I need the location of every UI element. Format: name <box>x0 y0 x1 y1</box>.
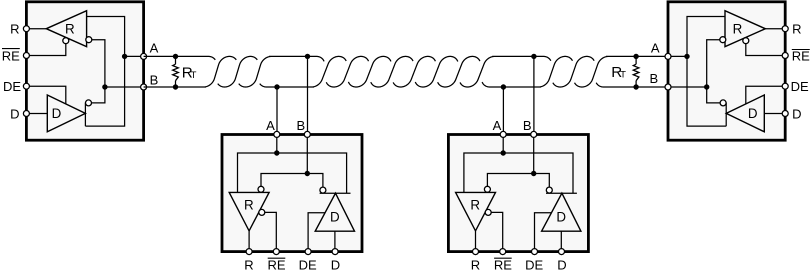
node: stub 2 tap A junction <box>501 84 506 89</box>
svg-text:A: A <box>266 118 275 133</box>
U1 pin DE <box>23 83 29 89</box>
U2 pin DE <box>305 249 311 255</box>
U2 driver inverting output bubble <box>320 187 326 193</box>
U3 wire: receiver enable to pin RE <box>491 212 502 251</box>
node: RT1 top junction on A <box>173 54 178 59</box>
node A junction inside U1 <box>122 54 127 59</box>
U4 pin R <box>782 26 788 32</box>
U1 wire: A node to pin A <box>125 55 144 57</box>
U3 pin A <box>500 131 506 137</box>
svg-text:R: R <box>792 22 801 37</box>
U1 pin A <box>141 53 147 59</box>
node B junction inside U4 <box>704 84 709 89</box>
svg-text:RE: RE <box>2 48 20 63</box>
svg-text:D: D <box>557 257 566 272</box>
U4 wire: pin B to B node <box>668 86 707 88</box>
U4 wire: RE pin to receiver enable <box>746 44 785 56</box>
U2 pin B <box>304 131 310 137</box>
U3 wire: pin B down to B node <box>533 134 535 173</box>
U3 wire: receiver output to pin R <box>475 231 477 252</box>
U4 pin RE <box>782 53 788 59</box>
op-amp U1 receiver triangle R <box>46 11 86 47</box>
U2 wire: pin B down to B node <box>306 134 308 173</box>
svg-text:T: T <box>620 70 626 81</box>
U3 driver output bar <box>546 192 577 194</box>
node: stub 2 tap B junction <box>531 54 536 59</box>
U1 driver inverting output bubble <box>86 100 92 106</box>
wire: bus line A twisted pair <box>144 56 668 87</box>
svg-text:R: R <box>471 257 480 272</box>
U4 pin B <box>665 84 671 90</box>
svg-text:B: B <box>296 118 305 133</box>
svg-text:R: R <box>244 257 253 272</box>
node: stub 1 tap A junction <box>274 84 279 89</box>
U2 driver output bar <box>320 192 351 194</box>
svg-text:DE: DE <box>791 79 809 94</box>
wire: stub 2 tap B from bus <box>533 56 535 134</box>
svg-text:R: R <box>470 198 480 213</box>
transceiver U4 block outline <box>668 2 785 140</box>
U1 receiver enable bubble <box>63 38 69 44</box>
op-amp U3 receiver triangle R <box>456 192 496 231</box>
U4 driver output bar <box>725 103 727 127</box>
U1 pin B <box>141 84 147 90</box>
U3 wire: pin A down to A node <box>502 134 504 153</box>
svg-text:R: R <box>10 22 19 37</box>
node A junction inside U2 <box>274 150 279 155</box>
transceiver U3 block outline <box>448 135 588 252</box>
op-amp U2 receiver triangle R <box>229 192 269 231</box>
U1 wire: D pin to driver input <box>26 113 47 115</box>
svg-text:T: T <box>191 70 197 81</box>
op-amp U3 driver triangle D <box>542 193 581 231</box>
U2 receiver inverting input bubble <box>258 186 264 192</box>
wire: stub 1 tap B from bus <box>307 56 309 134</box>
U3 pin D <box>559 249 565 255</box>
wire: stub 1 tap A from bus <box>276 87 278 134</box>
U2 pin R <box>246 249 252 255</box>
transceiver U2 block outline <box>222 135 362 252</box>
U1 receiver input wire from pin R to triangle apex <box>26 28 46 30</box>
U1 receiver inverting input bubble <box>86 37 92 43</box>
wire: bus line B twisted pair <box>144 56 668 87</box>
U3 wire: A node to receiver input and driver output <box>464 153 573 193</box>
svg-text:R: R <box>733 21 743 36</box>
U2 pin D <box>332 249 338 255</box>
svg-text:DE: DE <box>3 79 21 94</box>
svg-text:DE: DE <box>299 257 317 272</box>
U2 pin RE <box>273 249 279 255</box>
U1 wire: RE pin to receiver enable <box>26 44 65 56</box>
U1 label RE with overline <box>2 48 20 63</box>
svg-text:A: A <box>651 40 660 55</box>
U1 wire: DE pin to driver enable <box>26 86 65 104</box>
U2 wire: pin DE to driver enable <box>308 213 325 252</box>
svg-text:D: D <box>52 106 62 121</box>
svg-text:B: B <box>523 118 532 133</box>
svg-text:RE: RE <box>792 48 810 63</box>
U4 receiver inverting input bubble <box>720 37 726 43</box>
U4 pin A <box>665 53 671 59</box>
transceiver U1 block outline <box>26 2 143 140</box>
svg-text:RE: RE <box>267 257 285 272</box>
node A junction inside U3 <box>501 150 506 155</box>
U4 wire: DE pin to driver enable <box>746 86 785 104</box>
svg-text:A: A <box>493 118 502 133</box>
U1 wire: inverting input to B node <box>92 40 105 103</box>
svg-text:R: R <box>244 198 254 213</box>
svg-text:D: D <box>331 257 340 272</box>
U1 wire: B node to pin B <box>105 86 144 88</box>
U4 wire: D pin to driver input <box>764 113 785 115</box>
svg-text:D: D <box>330 209 340 224</box>
U2 wire: pin D to driver input <box>334 231 336 251</box>
U4 pin D <box>782 111 788 117</box>
node B junction inside U2 <box>305 171 310 176</box>
resistor RT2 <box>633 56 639 87</box>
U1 pin R <box>23 26 29 32</box>
U4 receiver output wire from triangle apex to pin R <box>765 28 785 30</box>
U4 wire: receiver non-inverting input to A node / driver output <box>687 17 726 127</box>
U1 wire: receiver non-inverting input to A node / driver output to A <box>85 17 124 127</box>
U4 receiver enable bubble <box>743 38 749 44</box>
U3 receiver enable bubble <box>485 209 491 215</box>
svg-text:DE: DE <box>525 257 543 272</box>
svg-text:D: D <box>556 209 566 224</box>
U3 driver inverting output bubble <box>546 187 552 193</box>
node A junction inside U4 <box>684 54 689 59</box>
U2 label RE with overline <box>267 257 285 272</box>
U4 driver inverting output bubble <box>720 100 726 106</box>
U4 wire: pin A to A node <box>668 55 687 57</box>
U3 pin RE <box>500 249 506 255</box>
node: stub 1 tap B junction <box>305 54 310 59</box>
U3 pin DE <box>532 249 538 255</box>
node B junction inside U3 <box>531 171 536 176</box>
node B junction inside U1 <box>102 84 107 89</box>
U4 pin DE <box>782 83 788 89</box>
U4 label RE with overline <box>792 48 810 63</box>
svg-text:A: A <box>150 40 159 55</box>
U2 wire: receiver output to pin R <box>248 231 250 252</box>
op-amp U4 driver triangle D <box>726 95 764 132</box>
svg-text:B: B <box>150 72 159 87</box>
svg-text:D: D <box>792 106 801 121</box>
U2 receiver enable bubble <box>259 209 265 215</box>
U1 driver output bar <box>84 103 86 127</box>
U4 wire: inverting input to B node <box>707 40 720 103</box>
svg-text:R: R <box>65 21 75 36</box>
U3 wire: B node to receiver inverting input and driver inverting output <box>487 174 549 188</box>
U2 wire: pin A down to A node <box>276 134 278 153</box>
op-amp U1 driver triangle D <box>47 95 85 132</box>
U2 wire: B node to receiver inverting input and driver inverting output <box>261 174 323 188</box>
U3 wire: pin DE to driver enable <box>535 213 552 252</box>
op-amp U4 receiver triangle R <box>725 11 765 47</box>
U2 wire: A node to receiver input and driver output <box>238 153 347 193</box>
node: RT2 bottom junction on B <box>633 84 638 89</box>
U3 receiver inverting input bubble <box>484 186 490 192</box>
U2 wire: receiver enable to pin RE <box>265 212 276 251</box>
node: RT2 top junction on A <box>633 54 638 59</box>
svg-text:D: D <box>10 106 19 121</box>
U3 pin R <box>473 249 479 255</box>
wire: stub 2 tap A from bus <box>502 87 504 134</box>
U3 label RE with overline <box>494 257 512 272</box>
svg-text:RE: RE <box>494 257 512 272</box>
resistor RT1 <box>173 56 179 87</box>
U2 pin A <box>274 131 280 137</box>
U1 pin RE <box>23 53 29 59</box>
op-amp U2 driver triangle D <box>315 193 354 231</box>
svg-text:D: D <box>748 106 758 121</box>
U1 pin D <box>23 111 29 117</box>
U3 wire: pin D to driver input <box>560 231 562 251</box>
svg-text:B: B <box>649 71 658 86</box>
label RT2 <box>611 64 626 81</box>
label RT1 <box>182 64 197 81</box>
node: RT1 bottom junction on B <box>173 84 178 89</box>
U3 pin B <box>531 131 537 137</box>
